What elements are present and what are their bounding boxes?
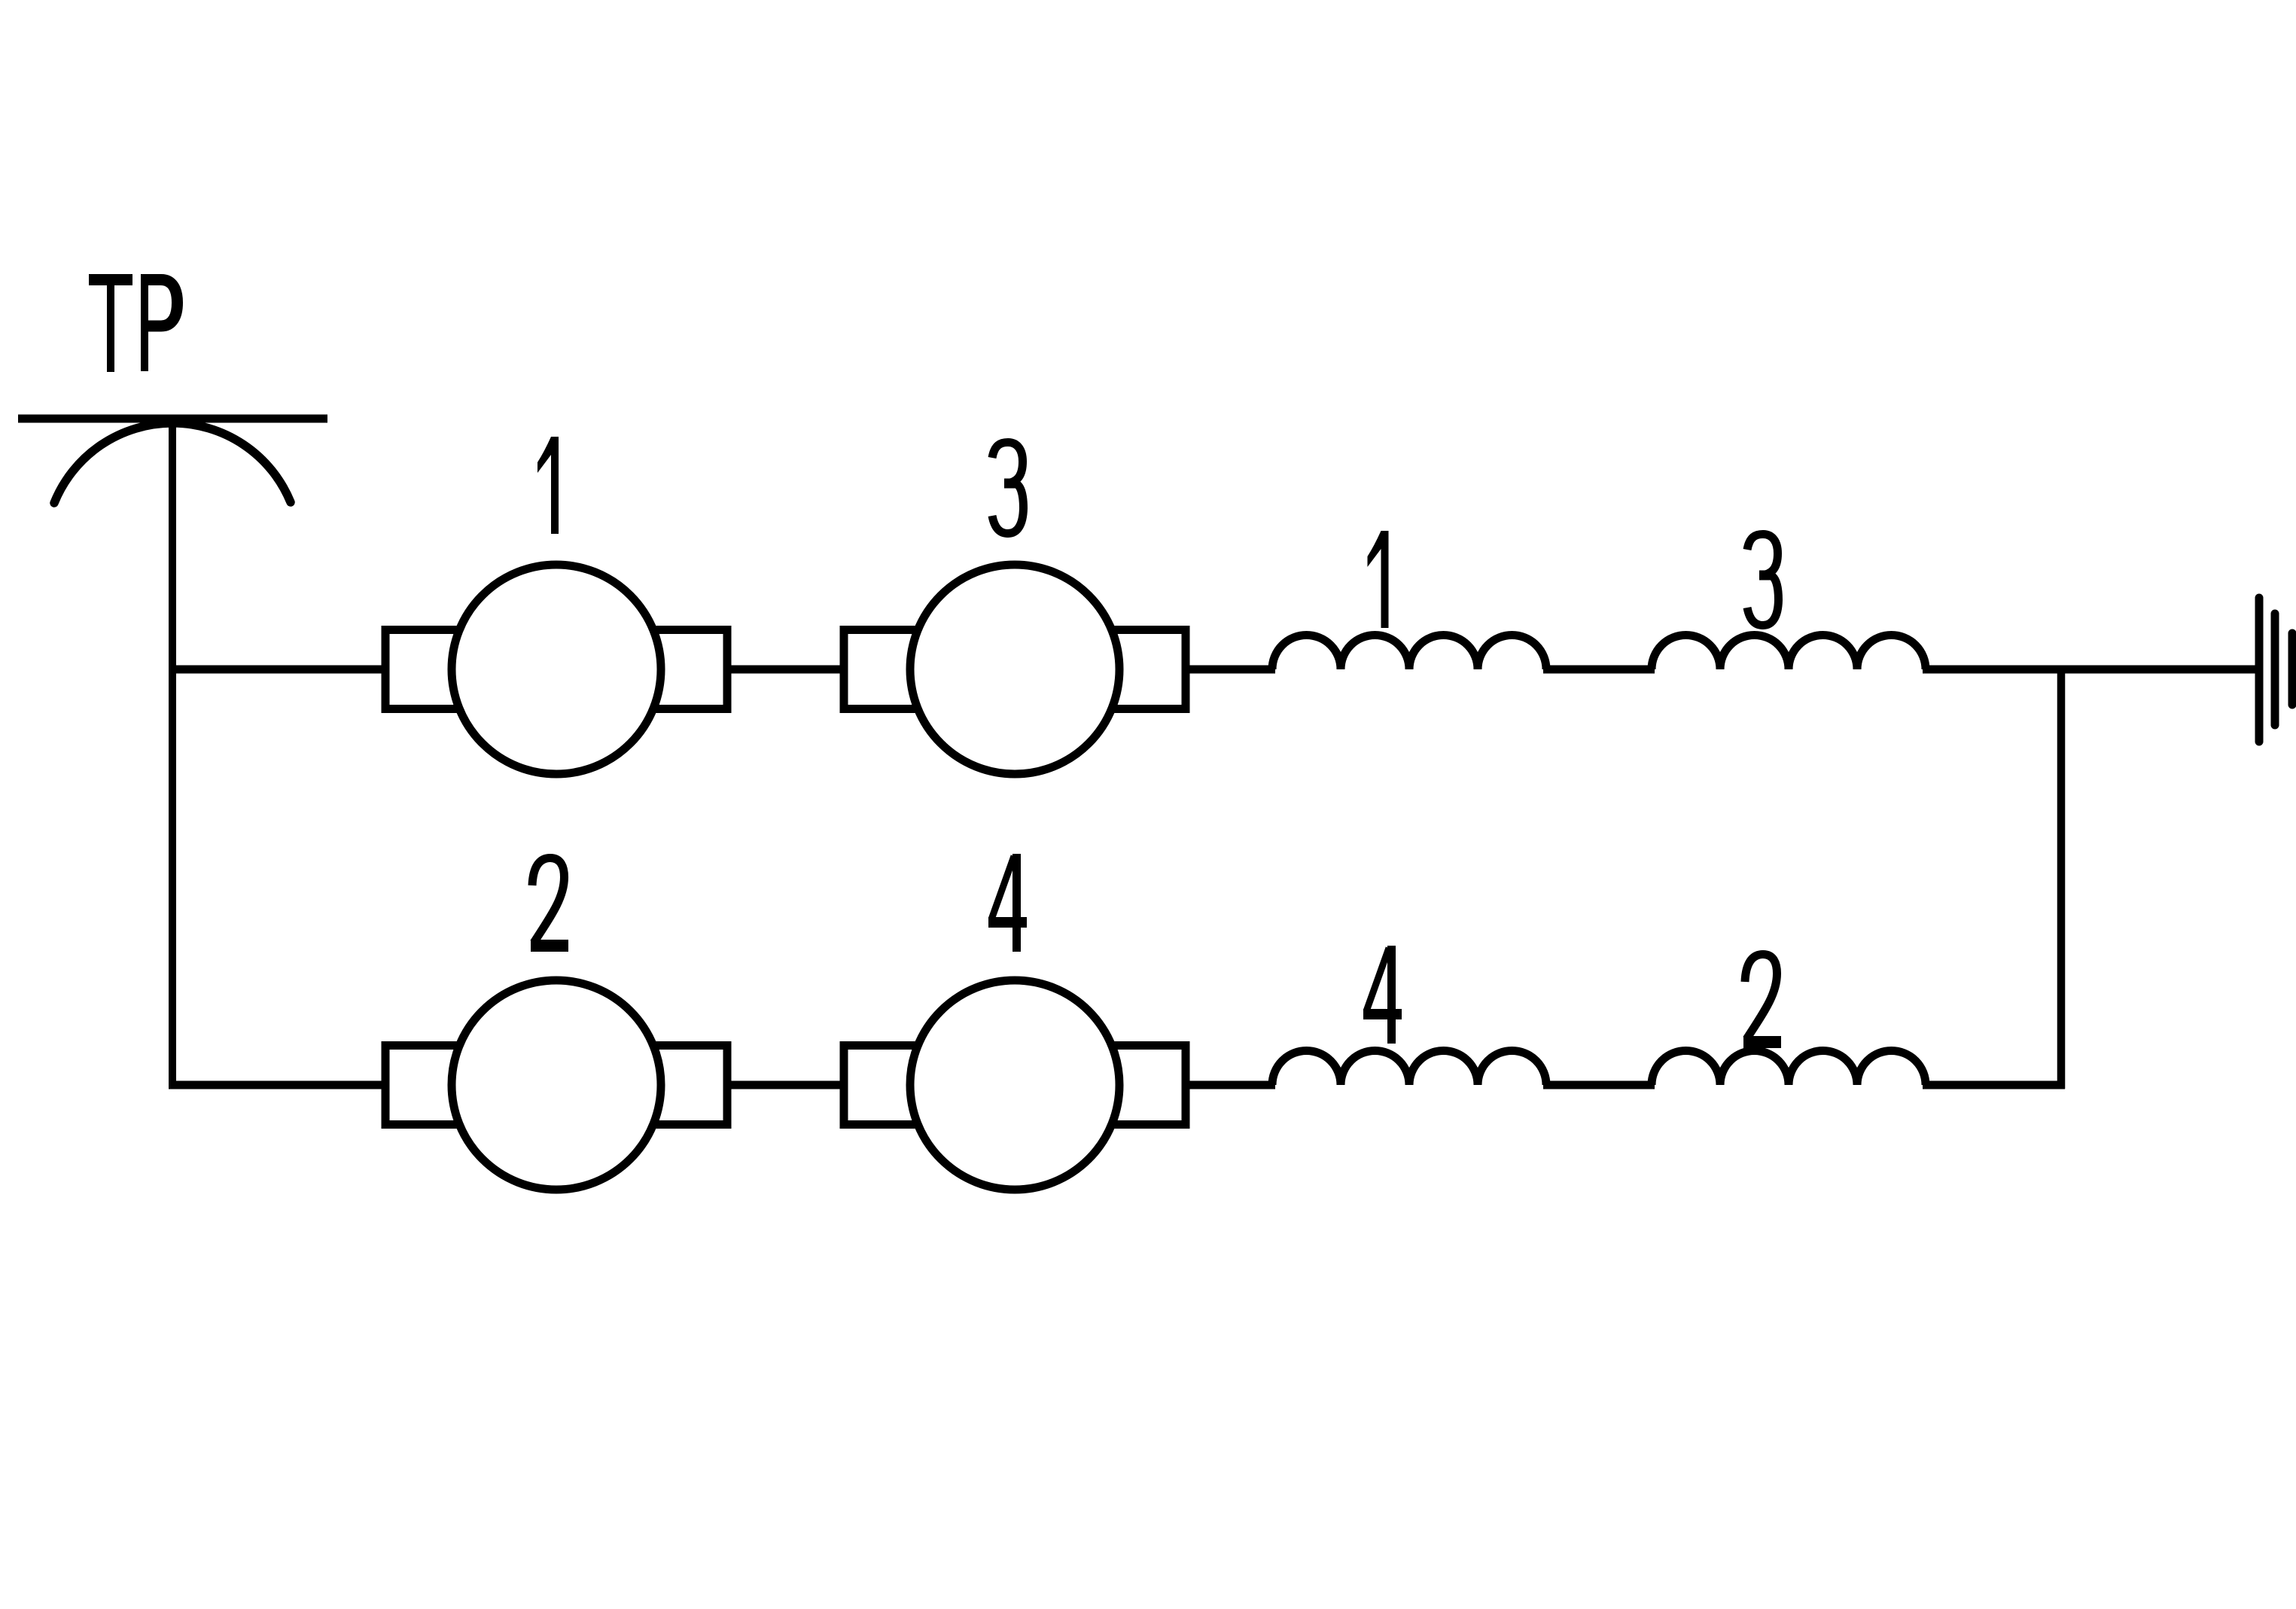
label motor 4 <box>988 854 1027 952</box>
motor 3 brush box left <box>844 630 932 709</box>
label inductor 2 <box>1743 955 1781 1049</box>
motor 1 brush box left <box>385 630 474 709</box>
ground rail bar 1 <box>2255 598 2264 742</box>
label motor 3 <box>992 443 1024 534</box>
node TP label <box>89 274 148 372</box>
label inductor 1 <box>1368 531 1389 628</box>
wire: motor 4 to inductor 4 <box>1181 1081 1275 1089</box>
wire: top branch from vertical to motor 1 <box>169 666 389 674</box>
wire: motor 1 to motor 3 <box>723 666 848 674</box>
motor 4 armature circle <box>910 980 1119 1190</box>
motor 2 brush box right <box>639 1046 727 1125</box>
wire: bottom branch from vertical to motor 2 <box>169 1081 389 1089</box>
pantograph TP contact wire <box>18 415 327 423</box>
motor 2 armature circle <box>452 980 661 1190</box>
wire: motor 2 to motor 4 <box>723 1081 848 1089</box>
pantograph bow arc <box>54 423 291 503</box>
wire: inductor 3 to ground <box>1923 666 2259 674</box>
ground rail bar 3 <box>2288 633 2296 705</box>
inductor 2 <box>1652 1051 1926 1086</box>
wire: inductor 1 to inductor 3 <box>1543 666 1655 674</box>
inductor 4 <box>1272 1051 1546 1086</box>
wire: inductor 4 to inductor 2 <box>1543 1081 1655 1089</box>
motor 2 brush box left <box>385 1046 474 1125</box>
motor 1 brush box right <box>639 630 727 709</box>
motor 3 armature circle <box>910 565 1119 774</box>
wire: motor 3 to inductor 1 <box>1181 666 1275 674</box>
label motor 1 <box>537 437 559 534</box>
inductor 1 <box>1272 635 1546 670</box>
wire: right junction vertical <box>2057 666 2066 1089</box>
wire: inductor 2 to right junction <box>1923 1081 2065 1089</box>
ground rail bar 2 <box>2271 614 2279 725</box>
label motor 2 <box>531 858 568 952</box>
motor 1 armature circle <box>452 565 661 774</box>
wire: pantograph vertical drop <box>169 419 176 1089</box>
motor 4 brush box right <box>1098 1046 1186 1125</box>
label inductor 4 <box>1363 946 1402 1044</box>
inductor 3 <box>1652 635 1926 670</box>
label inductor 3 <box>1747 535 1779 626</box>
motor 3 brush box right <box>1098 630 1186 709</box>
motor 4 brush box left <box>844 1046 932 1125</box>
